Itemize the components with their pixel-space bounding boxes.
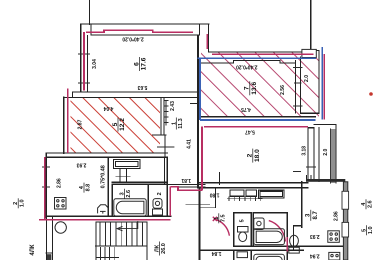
wall bath lower left — [252, 213, 254, 247]
svg-text:2.93: 2.93 — [76, 162, 86, 168]
svg-text:3.18: 3.18 — [301, 146, 307, 156]
red line balcony outer — [323, 54, 325, 120]
blue line balcony outer — [321, 47, 323, 119]
svg-text:0.75*0.48: 0.75*0.48 — [101, 165, 107, 188]
wall top outer room 6 — [81, 23, 209, 25]
svg-text:8.7: 8.7 — [313, 210, 319, 219]
wall room 7 right b — [299, 57, 301, 113]
wall stairwell outer left b — [51, 216, 53, 260]
label 2.40*0.20 room 6 — [122, 36, 144, 42]
stairs left stringer — [95, 222, 97, 260]
svg-text:2.43: 2.43 — [170, 101, 176, 111]
wall step top right — [314, 125, 336, 129]
label room 5 area — [112, 118, 126, 132]
wall bath block top a — [112, 181, 167, 183]
wall building edge top-left — [89, 0, 91, 25]
bathtub upper — [114, 199, 146, 216]
dim 2.93 kitchen — [76, 162, 86, 168]
door tick room 5 — [157, 146, 174, 148]
wall stairwell outer left a — [45, 218, 47, 260]
svg-text:2: 2 — [157, 192, 163, 195]
wall room 6 bottom line b — [64, 96, 198, 98]
svg-text:1.0: 1.0 — [368, 226, 374, 234]
closet box 3 — [258, 190, 284, 198]
dim 2.0 loggia — [323, 149, 329, 156]
bathtub mirrored bottom — [254, 254, 285, 260]
svg-text:2.86: 2.86 — [56, 178, 62, 188]
wall lower bottom b — [200, 249, 304, 251]
svg-text:2.40*0.20: 2.40*0.20 — [122, 36, 144, 42]
dim 1.80 — [210, 191, 220, 197]
wall wc right — [166, 184, 168, 215]
dim 5.63 — [137, 84, 147, 90]
red line room 6 top with niche jog — [86, 30, 193, 32]
label wc upper 2 — [157, 192, 163, 195]
wall bath lower right — [286, 213, 288, 247]
wall room 7 top outer — [209, 51, 311, 53]
svg-text:2.56: 2.56 — [280, 85, 286, 95]
label LK 26.0 — [155, 242, 168, 256]
wall mirrored vertical 2 — [250, 250, 252, 260]
stairs direction arrow — [117, 221, 138, 231]
door cross mark — [213, 217, 217, 221]
red line apartment bottom — [39, 219, 170, 221]
wall corridor side through door — [164, 135, 166, 157]
wall lobby lower — [294, 226, 302, 250]
wall wc5 right — [250, 213, 252, 247]
stove lower right — [328, 231, 340, 243]
door swing arc lower hall — [215, 219, 230, 235]
dim 5.47 — [245, 128, 255, 134]
wall verticals below 3.18 — [305, 176, 307, 180]
label corridor area — [171, 118, 184, 130]
grey right outer wall lower — [343, 182, 347, 260]
red line room 2 left — [201, 127, 203, 191]
dim 0.75*0.48 — [101, 165, 107, 188]
bathtub lower — [254, 229, 285, 245]
svg-text:2.6: 2.6 — [368, 200, 374, 208]
dim 2.93 lower — [310, 233, 320, 239]
svg-text:7.5: 7.5 — [220, 214, 226, 222]
svg-text:5.63: 5.63 — [137, 84, 147, 90]
grey wall loggia band — [331, 129, 336, 183]
wall bath lower top — [253, 212, 287, 214]
stairs lower landing line — [96, 257, 119, 259]
wall room 2 window cap — [308, 127, 314, 129]
window sill tick stairwell — [46, 252, 53, 254]
svg-text:1.80: 1.80 — [210, 191, 220, 197]
svg-text:1.84: 1.84 — [212, 250, 222, 256]
dimension chain ticks — [229, 197, 261, 201]
red dot right — [369, 92, 373, 96]
svg-text:1.0: 1.0 — [20, 199, 26, 207]
dimension chain line — [228, 198, 263, 200]
wall bath block top b — [112, 183, 167, 185]
duct connector left — [119, 169, 121, 183]
wall room 2 bottom b — [199, 187, 308, 189]
wall corridor left lower a — [164, 157, 166, 184]
dim 3.04 — [92, 59, 98, 69]
wall entrance b — [172, 186, 205, 188]
duct connector tick — [116, 175, 130, 177]
svg-text:2.87: 2.87 — [77, 119, 83, 129]
hatch room 5 — [71, 98, 161, 153]
dim 2.43 — [170, 101, 176, 111]
window ticks room 6 left wall — [78, 54, 90, 83]
svg-text:12.2: 12.2 — [119, 118, 126, 131]
wall lower bottom a — [234, 245, 344, 247]
svg-text:3.04: 3.04 — [92, 59, 98, 69]
dim 2.0 balcony — [304, 75, 310, 82]
wall room 5 bottom line a — [46, 152, 167, 154]
svg-text:2.86: 2.86 — [333, 211, 339, 221]
wall vertical below 3.18 b — [310, 176, 312, 180]
svg-text:26.0: 26.0 — [161, 243, 167, 254]
svg-text:2.93: 2.93 — [310, 233, 320, 239]
wall room 5 left outer — [63, 97, 65, 153]
red line entrance — [170, 187, 202, 191]
wall lower apartment left — [199, 188, 201, 260]
stair risers lower — [100, 247, 114, 260]
wall room 2 bottom a — [199, 182, 308, 184]
sink kitchen — [98, 205, 109, 214]
svg-text:4.75: 4.75 — [241, 106, 251, 112]
wall bath left — [111, 184, 113, 215]
svg-text:18.0: 18.0 — [254, 149, 261, 162]
wall room 2 window wall b — [313, 128, 315, 179]
label lower corridor area — [214, 213, 227, 223]
wall corridor left upper a — [160, 97, 162, 135]
toilet mirrored bottom — [237, 252, 248, 258]
label kitchen area — [79, 183, 92, 193]
tick corridor top jamb — [191, 102, 198, 104]
dim 4.75 — [241, 106, 251, 112]
door swing arc lower bath — [269, 221, 286, 242]
label room 6 area — [133, 57, 147, 71]
wall apartment bottom — [46, 215, 171, 217]
red line room 5 left — [67, 89, 69, 154]
dim 1.84 lower — [212, 250, 222, 256]
svg-text:17.6: 17.6 — [141, 57, 148, 70]
red line room 6 left wall — [83, 32, 85, 91]
wall niche lower corridor right — [214, 188, 216, 208]
svg-text:1.81: 1.81 — [181, 177, 191, 183]
svg-text:2.6: 2.6 — [126, 190, 132, 198]
dim 2.40*0.20 room 7 — [236, 64, 258, 70]
label balcony 2 1.0 left — [13, 198, 26, 208]
label room 3 lower area — [306, 210, 319, 221]
window ticks kitchen left wall — [42, 167, 50, 187]
wall right outer edge line — [335, 129, 337, 183]
dim 2.86 lower — [333, 211, 339, 221]
balcony parapet top-right — [300, 51, 319, 114]
dim 2.94 lower — [310, 253, 320, 259]
blue line room 7 left — [199, 58, 201, 120]
wall corridor left lower b — [166, 157, 168, 184]
label balcony 4 2.6 — [361, 199, 374, 209]
stairwell window dark box — [47, 254, 51, 260]
svg-text:2.0: 2.0 — [323, 149, 329, 156]
wall corner step right of room 6 — [208, 24, 210, 52]
toilet upper wc — [153, 199, 163, 215]
label room 7 area — [244, 81, 258, 95]
door leaf lobby — [286, 237, 288, 252]
red line kitchen left — [44, 157, 46, 220]
wall room7-room2 divider — [199, 116, 316, 118]
dim 2.56 — [280, 85, 286, 95]
blue line room 7 bottom — [200, 119, 316, 121]
window box right wall 2 — [342, 222, 349, 237]
wall step connector — [72, 92, 74, 98]
svg-text:5.47: 5.47 — [245, 128, 255, 134]
circle stairwell — [55, 222, 66, 233]
door tick room 2 — [219, 173, 221, 185]
wall room 7 top inner with window jambs — [199, 61, 295, 63]
wall niche lower corridor — [200, 207, 216, 209]
wall mirrored vertical 1 — [233, 250, 235, 260]
tick lower left wall — [186, 204, 210, 206]
duct box inner — [116, 161, 139, 166]
blue line room 7 top — [198, 57, 317, 59]
dim 2.86 kitchen — [56, 178, 62, 188]
closet box 1 — [230, 190, 244, 196]
stove mirrored bottom — [329, 252, 340, 260]
wall wc5 top — [234, 212, 252, 214]
building edge top-right — [310, 0, 312, 49]
wall room 2 window wall a — [307, 128, 309, 179]
wall room 6 top inner — [91, 25, 199, 35]
wall room 6 left outer — [80, 24, 82, 92]
svg-text:5: 5 — [240, 219, 246, 222]
sink lower bath — [254, 218, 264, 230]
grey thick band right middle — [306, 179, 345, 182]
stairs top line — [96, 221, 147, 223]
label balcony 5 1.0 — [362, 225, 375, 235]
window box right wall 1 — [342, 191, 349, 209]
wall entrance a — [165, 183, 206, 185]
wall room 5 bottom line b — [46, 156, 167, 158]
dim 4.04 — [103, 105, 113, 111]
dim 4.41 — [187, 139, 193, 149]
wall kitchen left outer — [45, 153, 47, 218]
window ticks room 7 right wall — [293, 68, 303, 106]
wall room 6 left inner — [87, 35, 89, 92]
balcony door box top right — [302, 49, 316, 57]
toilet lobby lower — [289, 235, 300, 253]
svg-text:11.3: 11.3 — [178, 118, 184, 128]
wall room3 lower left — [301, 182, 303, 227]
svg-text:4.41: 4.41 — [187, 139, 193, 149]
label wc5 lower — [240, 219, 246, 222]
svg-text:13.6: 13.6 — [251, 82, 258, 95]
wall room 6 bottom line a — [73, 91, 198, 93]
toilet wc5 lower — [238, 227, 249, 242]
label room 2 area — [247, 149, 261, 163]
window tick room 2 right wall — [293, 167, 316, 172]
red tick right of room 6 — [206, 34, 208, 49]
red line room 7 top — [212, 53, 314, 55]
svg-text:2.0: 2.0 — [304, 75, 310, 82]
svg-text:4.04: 4.04 — [103, 105, 113, 111]
stairs right boundary — [146, 222, 148, 260]
duct box outer — [114, 159, 141, 168]
red line room 2 top — [204, 126, 308, 128]
closet box 2 — [246, 190, 257, 196]
label 4LK — [30, 244, 36, 256]
wall loggia slot left — [318, 128, 320, 182]
wall kitchen right — [107, 157, 109, 216]
stairs landing line — [96, 245, 147, 247]
svg-text:2.94: 2.94 — [310, 253, 320, 259]
dim 2.87 — [77, 119, 83, 129]
dim 1.81 — [181, 177, 191, 183]
wall corridor-room2 long vertical — [197, 36, 199, 188]
stair risers upper — [100, 222, 142, 246]
wall room 7 right a — [294, 61, 296, 113]
svg-text:2.40*0.20: 2.40*0.20 — [236, 64, 258, 70]
corridor 2.43 chain — [164, 100, 169, 125]
wall bath-wc divider — [147, 184, 149, 215]
dim 3.18 — [301, 146, 307, 156]
label bath upper area — [120, 189, 133, 199]
wall corridor left upper b — [163, 97, 165, 135]
stove kitchen — [55, 198, 67, 210]
duct connector right — [125, 169, 127, 183]
svg-text:4ЛК: 4ЛК — [30, 244, 36, 256]
wall loggia slot right — [329, 129, 331, 183]
hatch room 7 and balcony — [201, 53, 319, 117]
svg-text:8.8: 8.8 — [86, 184, 92, 192]
wall mirrored vertical 3 — [286, 250, 288, 260]
door leaf room 5 — [153, 134, 166, 136]
wall wc5 left — [233, 213, 235, 247]
red line wc right — [169, 187, 171, 217]
